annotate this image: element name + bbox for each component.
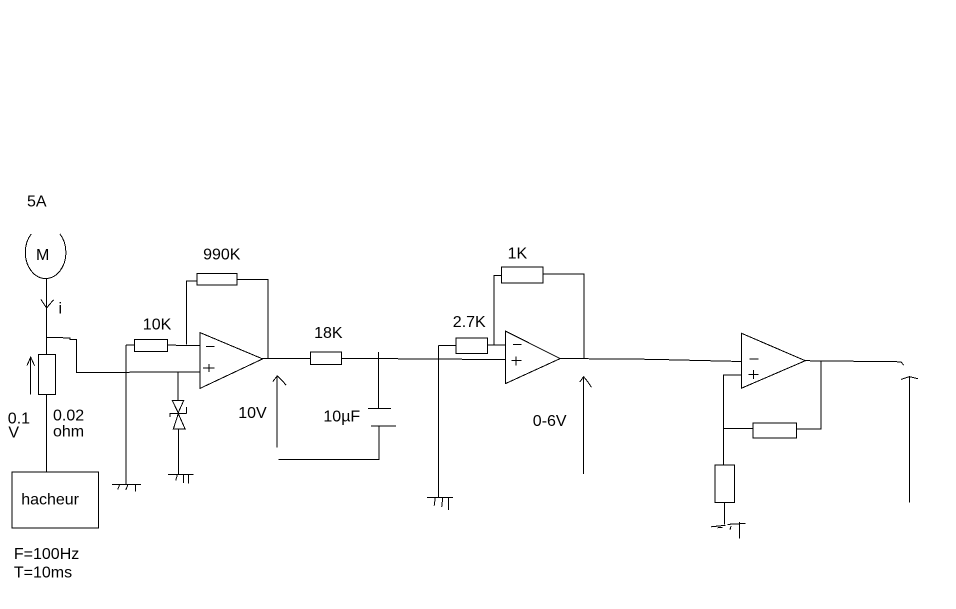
wire 10K to U1 minus [168, 344, 200, 346]
U2 minus sign [513, 344, 522, 346]
voltage arrow 0.1 V [27, 357, 35, 394]
wire U3 output [805, 361, 903, 366]
svg-text:hacheur: hacheur [21, 492, 79, 509]
svg-text:1K: 1K [508, 246, 528, 263]
svg-text:V: V [8, 425, 19, 442]
op-amp U3 [742, 333, 806, 388]
wire feedback right to output [797, 361, 821, 429]
wire U2 output to U3 input [560, 359, 741, 362]
U3 plus sign [748, 370, 758, 379]
svg-text:10K: 10K [143, 316, 172, 333]
svg-text:T=10ms: T=10ms [14, 564, 72, 581]
motor M1 circle [25, 234, 66, 279]
zener diode D1 bidirectional [169, 400, 186, 429]
wire feedback 1K left [494, 276, 502, 345]
wire branch shunt top to op-amp U1 + input [46, 337, 200, 372]
svg-text:10µF: 10µF [323, 408, 360, 425]
resistor R5 1K [502, 267, 543, 283]
wire U3 + input down [723, 375, 741, 465]
wire zener branch [177, 372, 179, 400]
wire 2.7K node to ground [438, 345, 440, 497]
current arrow i head [41, 299, 54, 308]
output arrow [901, 377, 918, 503]
svg-text:i: i [59, 301, 63, 318]
wire 1K right to output [543, 274, 584, 358]
wire feedback 990K left [187, 281, 198, 345]
resistor R2 990K [197, 274, 237, 286]
resistor R3 18K [310, 352, 341, 365]
ground G4 [711, 522, 745, 539]
resistor R4 2.7K [456, 338, 488, 353]
wire U1 output line to U2 + input [263, 358, 506, 359]
wire R7 to ground [724, 503, 726, 525]
wire 10K left to ground [125, 345, 127, 485]
svg-text:18K: 18K [314, 325, 343, 342]
wire shunt to hacheur [45, 395, 47, 472]
svg-text:ohm: ohm [53, 423, 84, 440]
wire to resistor R4 [439, 344, 456, 346]
wire zener to ground [177, 429, 179, 474]
U3 minus sign [750, 358, 759, 360]
U1 minus sign [206, 345, 214, 347]
wire motor to shunt [45, 279, 47, 355]
wire to resistor R1 [126, 344, 135, 346]
capacitor C1 10uF [279, 352, 396, 460]
svg-text:F=100Hz: F=100Hz [14, 546, 79, 563]
op-amp U2 [506, 331, 560, 383]
svg-text:0-6V: 0-6V [533, 413, 567, 430]
svg-text:5A: 5A [27, 194, 47, 211]
wire 2.7K to U2 minus [488, 344, 506, 346]
svg-text:2.7K: 2.7K [453, 314, 486, 331]
U2 plus sign [512, 357, 522, 366]
svg-text:0.02: 0.02 [53, 407, 84, 424]
op-amp U1 [200, 333, 263, 389]
resistor R1 10K [135, 339, 168, 351]
wire feedback lead left [723, 427, 753, 429]
ground G2 [168, 475, 193, 484]
resistor R7 to ground [715, 465, 734, 503]
svg-text:990K: 990K [203, 246, 241, 263]
feedback resistor R6 [753, 423, 797, 438]
svg-text:10V: 10V [238, 405, 267, 422]
wire 990K right to output [237, 280, 268, 359]
shunt resistor 0.02 ohm [38, 354, 55, 394]
svg-text:M: M [36, 247, 49, 264]
hacheur box [12, 472, 99, 528]
voltage arrow 10V [273, 376, 286, 448]
voltage arrow 0-6V [580, 377, 592, 474]
ground G3 [427, 497, 453, 510]
U1 plus sign [203, 364, 215, 372]
ground G1 [112, 485, 141, 492]
